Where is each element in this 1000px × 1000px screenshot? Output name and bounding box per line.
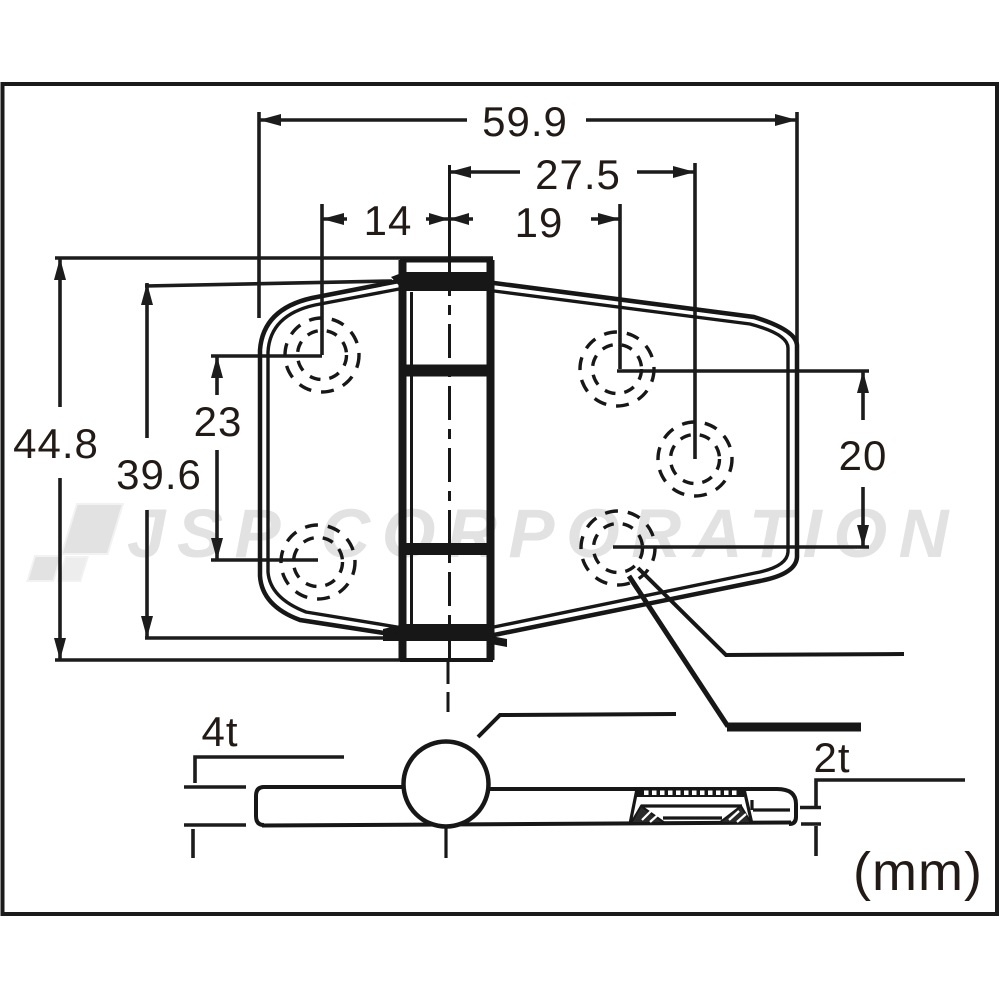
svg-text:14: 14 bbox=[364, 197, 413, 244]
knuckle band bottom bbox=[383, 624, 507, 647]
arrow 20 bottom bbox=[857, 525, 869, 547]
dim 39.6 dimension line bbox=[145, 283, 149, 438]
arrow 59.9 right bbox=[775, 114, 797, 126]
arrow 27.5 left bbox=[449, 166, 471, 178]
side view: bottom surface line bbox=[262, 823, 791, 826]
dim 4t reference line bbox=[184, 757, 344, 858]
hole callout leader lower bbox=[629, 576, 861, 725]
side view: countersink outline bbox=[630, 789, 752, 824]
dim 39.6 extension line top bbox=[145, 281, 392, 286]
svg-text:4t: 4t bbox=[201, 708, 238, 755]
arrow 39.6 top bbox=[141, 283, 153, 305]
knuckle band mid lower bbox=[403, 543, 490, 555]
arrow 39.6 bottom bbox=[141, 616, 153, 638]
dim 59.9 extension line right bbox=[795, 112, 799, 344]
dim 2t reference line bbox=[800, 780, 965, 856]
dim 20 dimension line bbox=[861, 371, 865, 420]
side view: countersink serrated band bbox=[637, 789, 744, 797]
side view: hem inner line bbox=[752, 800, 790, 810]
side view: centerline below barrel bbox=[444, 827, 447, 858]
dim 44.8 dimension line bbox=[58, 258, 62, 407]
dim 14 extension line bbox=[320, 204, 324, 355]
left leaf inner outline bbox=[268, 289, 399, 627]
side view: barrel circle bbox=[404, 742, 489, 827]
arrow 23 top bbox=[211, 356, 223, 378]
dim 19 extension line bbox=[618, 204, 622, 369]
svg-text:19: 19 bbox=[515, 199, 564, 246]
dim 23 extension line top bbox=[211, 354, 322, 358]
dim 20 extension line top bbox=[617, 369, 869, 373]
dim 19 dimension line bbox=[591, 217, 620, 221]
arrow 23 bottom bbox=[211, 538, 223, 560]
svg-text:2t: 2t bbox=[813, 734, 850, 781]
arrow 44.8 top bbox=[54, 258, 66, 280]
dim 23 extension line bottom bbox=[211, 558, 318, 562]
side view: right plate bbox=[488, 789, 796, 824]
arrow 20 top bbox=[857, 371, 869, 393]
svg-text:23: 23 bbox=[194, 398, 243, 445]
svg-text:(mm): (mm) bbox=[853, 842, 983, 902]
dim 14 dimension line bbox=[322, 217, 347, 221]
svg-text:44.8: 44.8 bbox=[13, 420, 99, 467]
svg-text:39.6: 39.6 bbox=[116, 451, 202, 498]
watermark logo mark bbox=[27, 504, 123, 581]
svg-text:20: 20 bbox=[839, 432, 888, 479]
right leaf inner outline bbox=[494, 291, 788, 627]
side view: barrel leader bbox=[478, 714, 676, 737]
svg-text:59.9: 59.9 bbox=[482, 98, 568, 145]
knuckle band top bbox=[391, 272, 491, 291]
dim arrowheads bbox=[54, 114, 869, 660]
dim 59.9 extension line left bbox=[257, 112, 261, 318]
svg-text:27.5: 27.5 bbox=[535, 151, 621, 198]
hole top-right bbox=[580, 332, 654, 406]
dim 44.8 extension line top bbox=[55, 256, 493, 260]
dim 27.5 dimension line bbox=[449, 170, 520, 174]
right leaf outer outline bbox=[494, 283, 797, 635]
dim 59.9 dimension line bbox=[259, 118, 467, 122]
arrow 44.8 bottom bbox=[54, 638, 66, 660]
dim 23 dimension line bbox=[215, 357, 219, 395]
dim 44.8 extension line bottom bbox=[55, 658, 493, 662]
dim 20 extension line bottom bbox=[613, 545, 869, 549]
arrow 27.5 right bbox=[673, 166, 695, 178]
arrow 14 left bbox=[322, 213, 344, 225]
hole callout leader upper bbox=[638, 568, 904, 655]
arrow 19 right bbox=[598, 213, 620, 225]
side view: left plate bbox=[256, 787, 430, 825]
hole middle-right bbox=[658, 422, 732, 496]
side view: countersink hatched wall left bbox=[631, 806, 665, 823]
hole bottom-right bbox=[581, 511, 655, 585]
hole bottom-left bbox=[281, 525, 355, 599]
side view: countersink hatched wall right bbox=[719, 806, 751, 823]
pin centerline bbox=[448, 165, 450, 712]
arrow 59.9 left bbox=[259, 114, 281, 126]
left leaf outer outline bbox=[260, 281, 399, 635]
top view: hinge pin column outline bbox=[400, 260, 493, 660]
dim 27.5 extension line right bbox=[693, 163, 697, 459]
arrow 14/19 centre bbox=[429, 213, 449, 225]
hole top-left bbox=[285, 318, 359, 392]
knuckle band mid upper bbox=[403, 365, 490, 377]
dim 39.6 extension line bottom bbox=[145, 636, 403, 640]
